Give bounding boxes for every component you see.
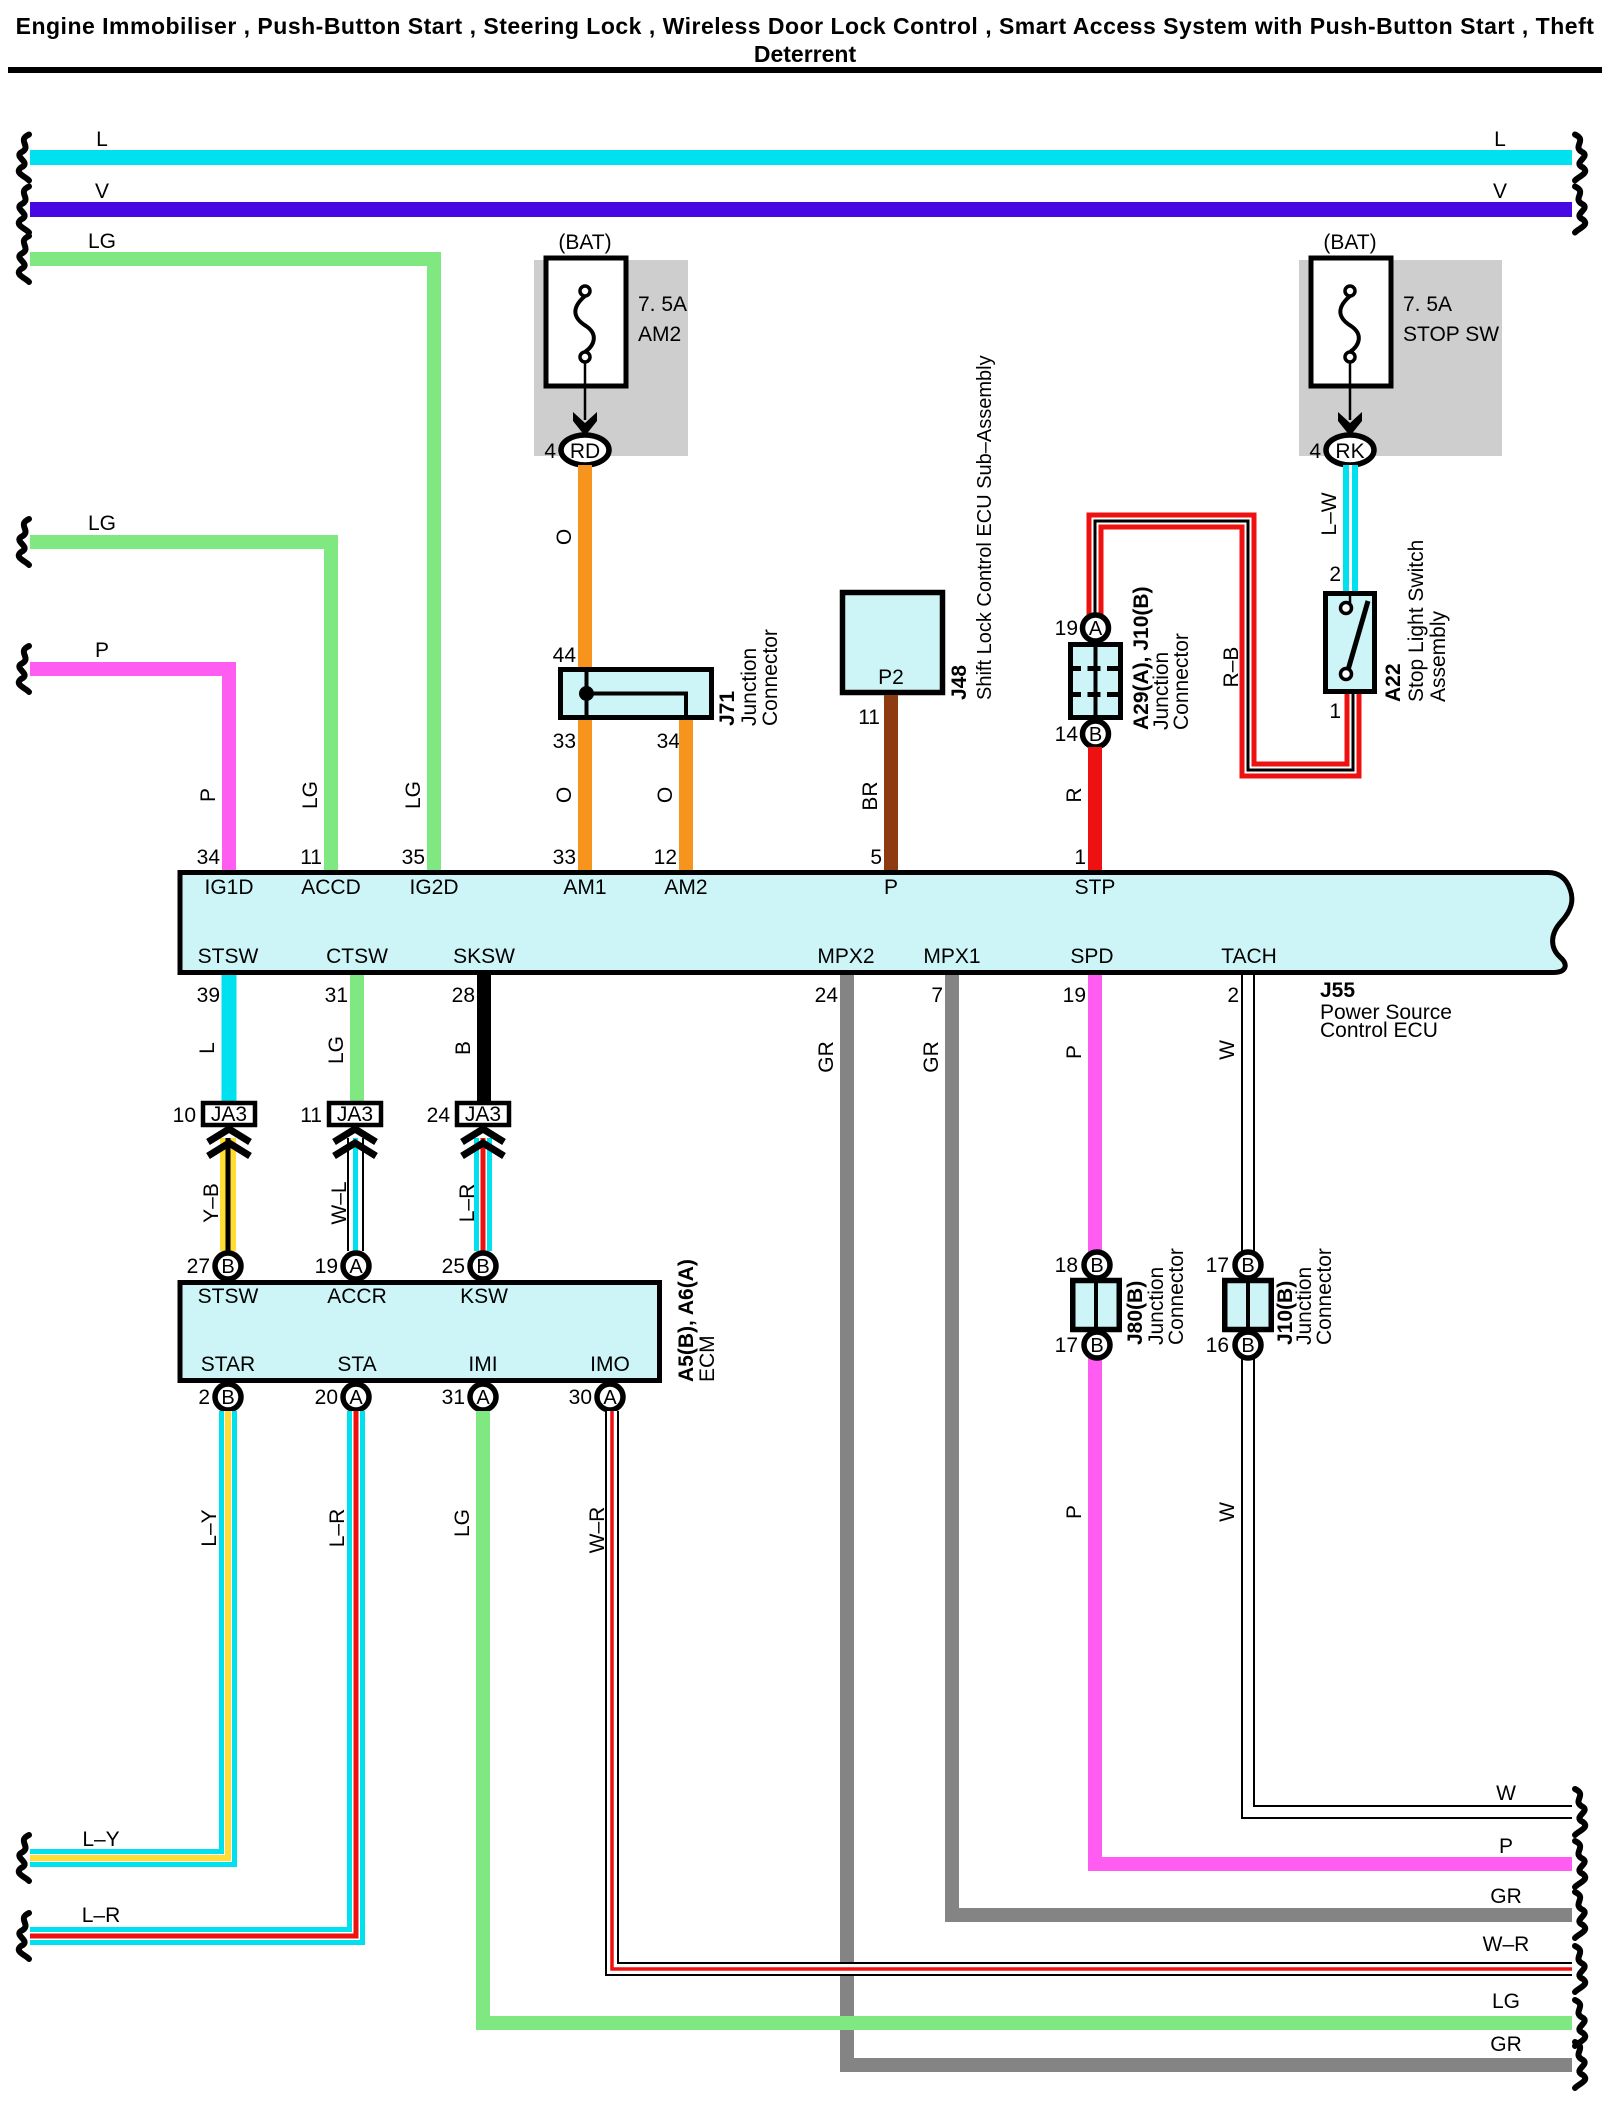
svg-text:KSW: KSW <box>460 1285 508 1308</box>
svg-text:ECM: ECM <box>696 1335 719 1382</box>
svg-text:5: 5 <box>870 846 882 869</box>
svg-text:TACH: TACH <box>1221 945 1277 968</box>
svg-text:31: 31 <box>442 1386 465 1409</box>
svg-text:L–W: L–W <box>1318 492 1341 535</box>
title rule <box>8 67 1602 73</box>
svg-text:A: A <box>1089 618 1103 640</box>
wire LG from CTSW to JA3 <box>350 975 364 1101</box>
svg-text:(BAT): (BAT) <box>1323 231 1376 254</box>
wire L-R from ECM STA to bottom left <box>30 1411 356 1936</box>
connector circle B bottom of J10(B) <box>1235 1332 1261 1358</box>
svg-text:12: 12 <box>654 846 677 869</box>
svg-text:Engine Immobiliser , Push-Butt: Engine Immobiliser , Push-Button Start ,… <box>16 13 1595 39</box>
svg-text:11: 11 <box>300 1104 322 1127</box>
wire B from SKSW to JA3 <box>477 975 491 1101</box>
svg-text:LG: LG <box>451 1509 474 1537</box>
junction connector J71 <box>561 667 712 720</box>
svg-text:B: B <box>221 1256 234 1278</box>
svg-text:W–R: W–R <box>1483 1933 1530 1956</box>
svg-text:SKSW: SKSW <box>453 945 515 968</box>
wire Y-B from JA3 to ECM STSW <box>220 1138 236 1251</box>
svg-text:A5(B), A6(A): A5(B), A6(A) <box>675 1259 698 1382</box>
wire LG to ACCD <box>30 542 331 872</box>
svg-text:CTSW: CTSW <box>326 945 388 968</box>
connector break brace left of wire L <box>19 135 29 181</box>
svg-text:L–R: L–R <box>456 1184 479 1223</box>
svg-text:Connector: Connector <box>759 629 782 726</box>
chevron arrows W-L <box>334 1129 376 1156</box>
svg-text:10: 10 <box>173 1104 196 1127</box>
svg-text:A: A <box>603 1387 617 1409</box>
chevron arrows L-R <box>462 1129 504 1156</box>
svg-text:LG: LG <box>88 512 116 535</box>
svg-text:LG: LG <box>299 781 322 809</box>
svg-text:11: 11 <box>300 846 322 869</box>
junction connector J10(B) <box>1225 1278 1272 1331</box>
svg-text:P: P <box>1499 1835 1513 1858</box>
connector circle B top of J10(B) <box>1235 1252 1261 1278</box>
svg-text:1: 1 <box>1074 846 1086 869</box>
connector break brace right of wire L <box>1575 135 1585 181</box>
svg-text:L–Y: L–Y <box>82 1828 119 1851</box>
svg-text:STAR: STAR <box>201 1353 255 1376</box>
wire P to IG1D <box>30 669 229 872</box>
connector break brace left of mid LG wire <box>19 519 29 565</box>
svg-text:J80(B): J80(B) <box>1124 1281 1147 1345</box>
wire LG from ECM IMI to right <box>483 1411 1572 2023</box>
svg-text:P: P <box>95 639 109 662</box>
wire L-W from RK to stop light switch <box>1343 465 1358 591</box>
svg-text:34: 34 <box>657 730 681 753</box>
svg-text:J55: J55 <box>1320 979 1355 1002</box>
svg-text:25: 25 <box>442 1255 465 1278</box>
svg-text:P2: P2 <box>878 666 904 689</box>
svg-text:2: 2 <box>1329 563 1341 586</box>
wire R from A29 to J55 STP <box>1088 747 1102 872</box>
svg-text:V: V <box>95 180 109 203</box>
stop light switch assembly A22 <box>1326 593 1375 692</box>
svg-text:Connector: Connector <box>1313 1248 1336 1345</box>
wire V (violet) top bus <box>30 202 1572 217</box>
fuse 7.5A STOP SW <box>1299 258 1502 456</box>
svg-text:GR: GR <box>1490 1885 1522 1908</box>
svg-text:19: 19 <box>315 1255 338 1278</box>
svg-text:RD: RD <box>570 440 600 463</box>
svg-text:14: 14 <box>1055 723 1079 746</box>
svg-text:SPD: SPD <box>1070 945 1113 968</box>
svg-text:L: L <box>196 1042 219 1054</box>
svg-text:W–L: W–L <box>328 1181 351 1224</box>
svg-text:L–R: L–R <box>326 1509 349 1548</box>
svg-text:Assembly: Assembly <box>1427 610 1450 702</box>
svg-text:28: 28 <box>452 984 475 1007</box>
svg-text:ACCR: ACCR <box>327 1285 387 1308</box>
svg-text:Shift Lock Control ECU Sub–Ass: Shift Lock Control ECU Sub–Assembly <box>974 355 996 700</box>
wire GR from MPX2 to bottom right <box>847 975 1572 2065</box>
svg-text:Control ECU: Control ECU <box>1320 1019 1438 1042</box>
fuse 7.5A AM2 <box>534 258 688 456</box>
svg-text:B: B <box>1089 724 1102 746</box>
svg-text:W: W <box>1496 1782 1516 1805</box>
svg-text:A22: A22 <box>1382 663 1405 702</box>
svg-text:19: 19 <box>1055 617 1078 640</box>
wire W from TACH to right <box>1248 975 1572 1812</box>
connector break brace right of LG wire <box>1575 2000 1585 2046</box>
svg-text:AM1: AM1 <box>563 876 606 899</box>
svg-text:27: 27 <box>187 1255 210 1278</box>
connector break brace right of W wire <box>1575 1789 1585 1835</box>
svg-text:LG: LG <box>1492 1990 1520 2013</box>
junction connector JA3 pin 24 <box>427 1103 509 1127</box>
svg-text:BR: BR <box>859 781 882 810</box>
svg-text:35: 35 <box>402 846 425 869</box>
svg-text:4: 4 <box>544 440 556 463</box>
connector circle B top of J80(B) <box>1084 1252 1110 1278</box>
svg-text:JA3: JA3 <box>465 1103 501 1126</box>
svg-text:O: O <box>654 787 677 803</box>
svg-text:P: P <box>884 876 898 899</box>
svg-text:Y–B: Y–B <box>200 1183 223 1223</box>
svg-text:B: B <box>1241 1255 1254 1277</box>
wire R-B from A29 to stop light switch A22 <box>1095 521 1353 770</box>
svg-text:L: L <box>1494 128 1506 151</box>
svg-text:34: 34 <box>197 846 221 869</box>
svg-text:B: B <box>1090 1335 1103 1357</box>
svg-text:MPX1: MPX1 <box>923 945 980 968</box>
svg-text:44: 44 <box>553 644 577 667</box>
wire LG to IG2D <box>30 259 434 872</box>
svg-text:STOP SW: STOP SW <box>1403 323 1499 346</box>
svg-text:P: P <box>1063 1045 1086 1059</box>
svg-text:24: 24 <box>815 984 839 1007</box>
svg-text:Stop Light Switch: Stop Light Switch <box>1405 540 1428 702</box>
svg-text:B: B <box>452 1041 475 1055</box>
svg-text:W–R: W–R <box>586 1507 609 1554</box>
svg-text:A: A <box>349 1387 363 1409</box>
svg-text:B: B <box>1090 1255 1103 1277</box>
svg-text:L: L <box>96 128 108 151</box>
svg-text:(BAT): (BAT) <box>558 231 611 254</box>
svg-text:R–B: R–B <box>1220 647 1243 688</box>
svg-text:J71: J71 <box>716 691 739 726</box>
svg-text:L–R: L–R <box>82 1904 121 1927</box>
svg-text:JA3: JA3 <box>337 1103 373 1126</box>
svg-text:P: P <box>1063 1505 1086 1519</box>
svg-text:LG: LG <box>88 230 116 253</box>
svg-text:LG: LG <box>325 1036 348 1064</box>
svg-text:J48: J48 <box>948 665 971 700</box>
title: diagram heading <box>16 13 1595 67</box>
pin 27 circle B above ECM <box>187 1253 241 1279</box>
svg-text:O: O <box>553 787 576 803</box>
wire L from STSW to JA3 <box>222 975 237 1101</box>
svg-text:P: P <box>197 788 220 802</box>
svg-text:STSW: STSW <box>198 1285 259 1308</box>
svg-text:17: 17 <box>1206 1254 1229 1277</box>
svg-text:B: B <box>476 1256 489 1278</box>
svg-text:IG2D: IG2D <box>409 876 458 899</box>
svg-text:Junction: Junction <box>738 648 761 726</box>
chevron arrows Y-B <box>208 1129 250 1156</box>
svg-text:IG1D: IG1D <box>204 876 253 899</box>
connector break brace left of L-Y <box>19 1835 29 1881</box>
pin 20 circle A below ECM <box>315 1384 369 1410</box>
svg-text:19: 19 <box>1063 984 1086 1007</box>
svg-text:IMO: IMO <box>590 1353 630 1376</box>
connector break brace right of W–R wire <box>1575 1946 1585 1992</box>
svg-text:Connector: Connector <box>1165 1248 1188 1345</box>
connector circle B bottom of J80(B) <box>1084 1332 1110 1358</box>
wire O from fuse AM2 to J71 and AM1 <box>578 465 592 872</box>
wire O from J71 to AM2 <box>679 720 693 872</box>
svg-text:39: 39 <box>197 984 220 1007</box>
pin 31 circle A below ECM <box>442 1384 496 1410</box>
junction connector A29(A) J10(B) <box>1068 642 1123 720</box>
svg-text:11: 11 <box>858 706 880 729</box>
pin 30 circle A below ECM <box>569 1384 623 1410</box>
svg-text:GR: GR <box>815 1041 838 1073</box>
svg-text:33: 33 <box>553 846 576 869</box>
svg-text:31: 31 <box>325 984 348 1007</box>
connector break brace right of GR wire <box>1575 1892 1585 1938</box>
svg-text:MPX2: MPX2 <box>817 945 874 968</box>
wire L-R from JA3 to ECM KSW <box>474 1138 492 1251</box>
svg-text:ACCD: ACCD <box>301 876 361 899</box>
svg-text:7. 5A: 7. 5A <box>1403 293 1452 316</box>
svg-text:LG: LG <box>402 781 425 809</box>
svg-text:7: 7 <box>931 984 943 1007</box>
connector break brace left of P wire <box>19 646 29 692</box>
svg-text:30: 30 <box>569 1386 592 1409</box>
svg-text:GR: GR <box>920 1041 943 1073</box>
connector circle A of A29 <box>1083 615 1109 641</box>
svg-text:AM2: AM2 <box>664 876 707 899</box>
svg-text:B: B <box>1241 1335 1254 1357</box>
connector 4 (RK) <box>1309 435 1374 465</box>
svg-text:RK: RK <box>1335 440 1364 463</box>
svg-text:2: 2 <box>198 1386 210 1409</box>
junction connector JA3 pin 10 <box>173 1103 255 1127</box>
wire L-Y from ECM STAR to bottom left <box>30 1411 228 1858</box>
svg-text:AM2: AM2 <box>638 323 681 346</box>
svg-text:B: B <box>221 1387 234 1409</box>
connector break brace left of top LG wire <box>19 236 29 282</box>
wire W-R from ECM IMO to right <box>612 1411 1572 1969</box>
svg-text:O: O <box>553 529 576 545</box>
svg-text:16: 16 <box>1206 1334 1229 1357</box>
svg-text:7. 5A: 7. 5A <box>638 293 687 316</box>
svg-text:W: W <box>1216 1502 1239 1522</box>
connector break brace right of wire V <box>1575 187 1585 233</box>
svg-text:STA: STA <box>337 1353 376 1376</box>
svg-text:Deterrent: Deterrent <box>754 41 857 67</box>
shift lock control ECU P2 box J48 <box>843 593 943 693</box>
pin 25 circle B above ECM <box>442 1253 496 1279</box>
wire BR from P2 to J55 P <box>884 695 898 872</box>
svg-text:GR: GR <box>1490 2033 1522 2056</box>
svg-text:2: 2 <box>1227 984 1239 1007</box>
svg-text:1: 1 <box>1329 700 1341 723</box>
wire GR from MPX1 to right <box>952 975 1572 1915</box>
wire P from SPD to right <box>1095 975 1572 1864</box>
svg-text:4: 4 <box>1309 440 1321 463</box>
svg-text:Connector: Connector <box>1170 633 1193 730</box>
svg-text:24: 24 <box>427 1104 451 1127</box>
junction connector J80(B) <box>1073 1278 1120 1331</box>
pin 2 circle B below ECM <box>198 1384 241 1410</box>
junction connector JA3 pin 11 <box>300 1103 381 1127</box>
svg-text:18: 18 <box>1055 1254 1078 1277</box>
power source control ECU J55 box <box>180 873 1572 973</box>
svg-text:IMI: IMI <box>468 1353 497 1376</box>
wire L (blue) top bus <box>30 150 1572 165</box>
ECM box A5(B), A6(A) <box>180 1283 660 1381</box>
svg-text:33: 33 <box>553 730 576 753</box>
svg-text:R: R <box>1063 787 1086 802</box>
connector break brace left of wire V <box>19 187 29 233</box>
svg-text:A: A <box>476 1387 490 1409</box>
svg-text:17: 17 <box>1055 1334 1078 1357</box>
svg-text:20: 20 <box>315 1386 338 1409</box>
wire W-L from JA3 to ECM ACCR <box>347 1138 364 1251</box>
svg-text:A: A <box>349 1256 363 1278</box>
connector circle B of A29 <box>1083 721 1109 747</box>
svg-text:V: V <box>1493 180 1507 203</box>
svg-text:JA3: JA3 <box>211 1103 247 1126</box>
svg-text:W: W <box>1216 1040 1239 1060</box>
svg-text:STP: STP <box>1075 876 1116 899</box>
connector break brace right of GR wire <box>1575 2042 1585 2088</box>
connector break brace right of P wire <box>1575 1841 1585 1887</box>
svg-text:L–Y: L–Y <box>198 1509 221 1546</box>
pin 19 circle A above ECM <box>315 1253 369 1279</box>
connector 4 (RD) <box>544 435 609 465</box>
svg-text:STSW: STSW <box>198 945 259 968</box>
connector break brace left of L-R <box>19 1913 29 1959</box>
